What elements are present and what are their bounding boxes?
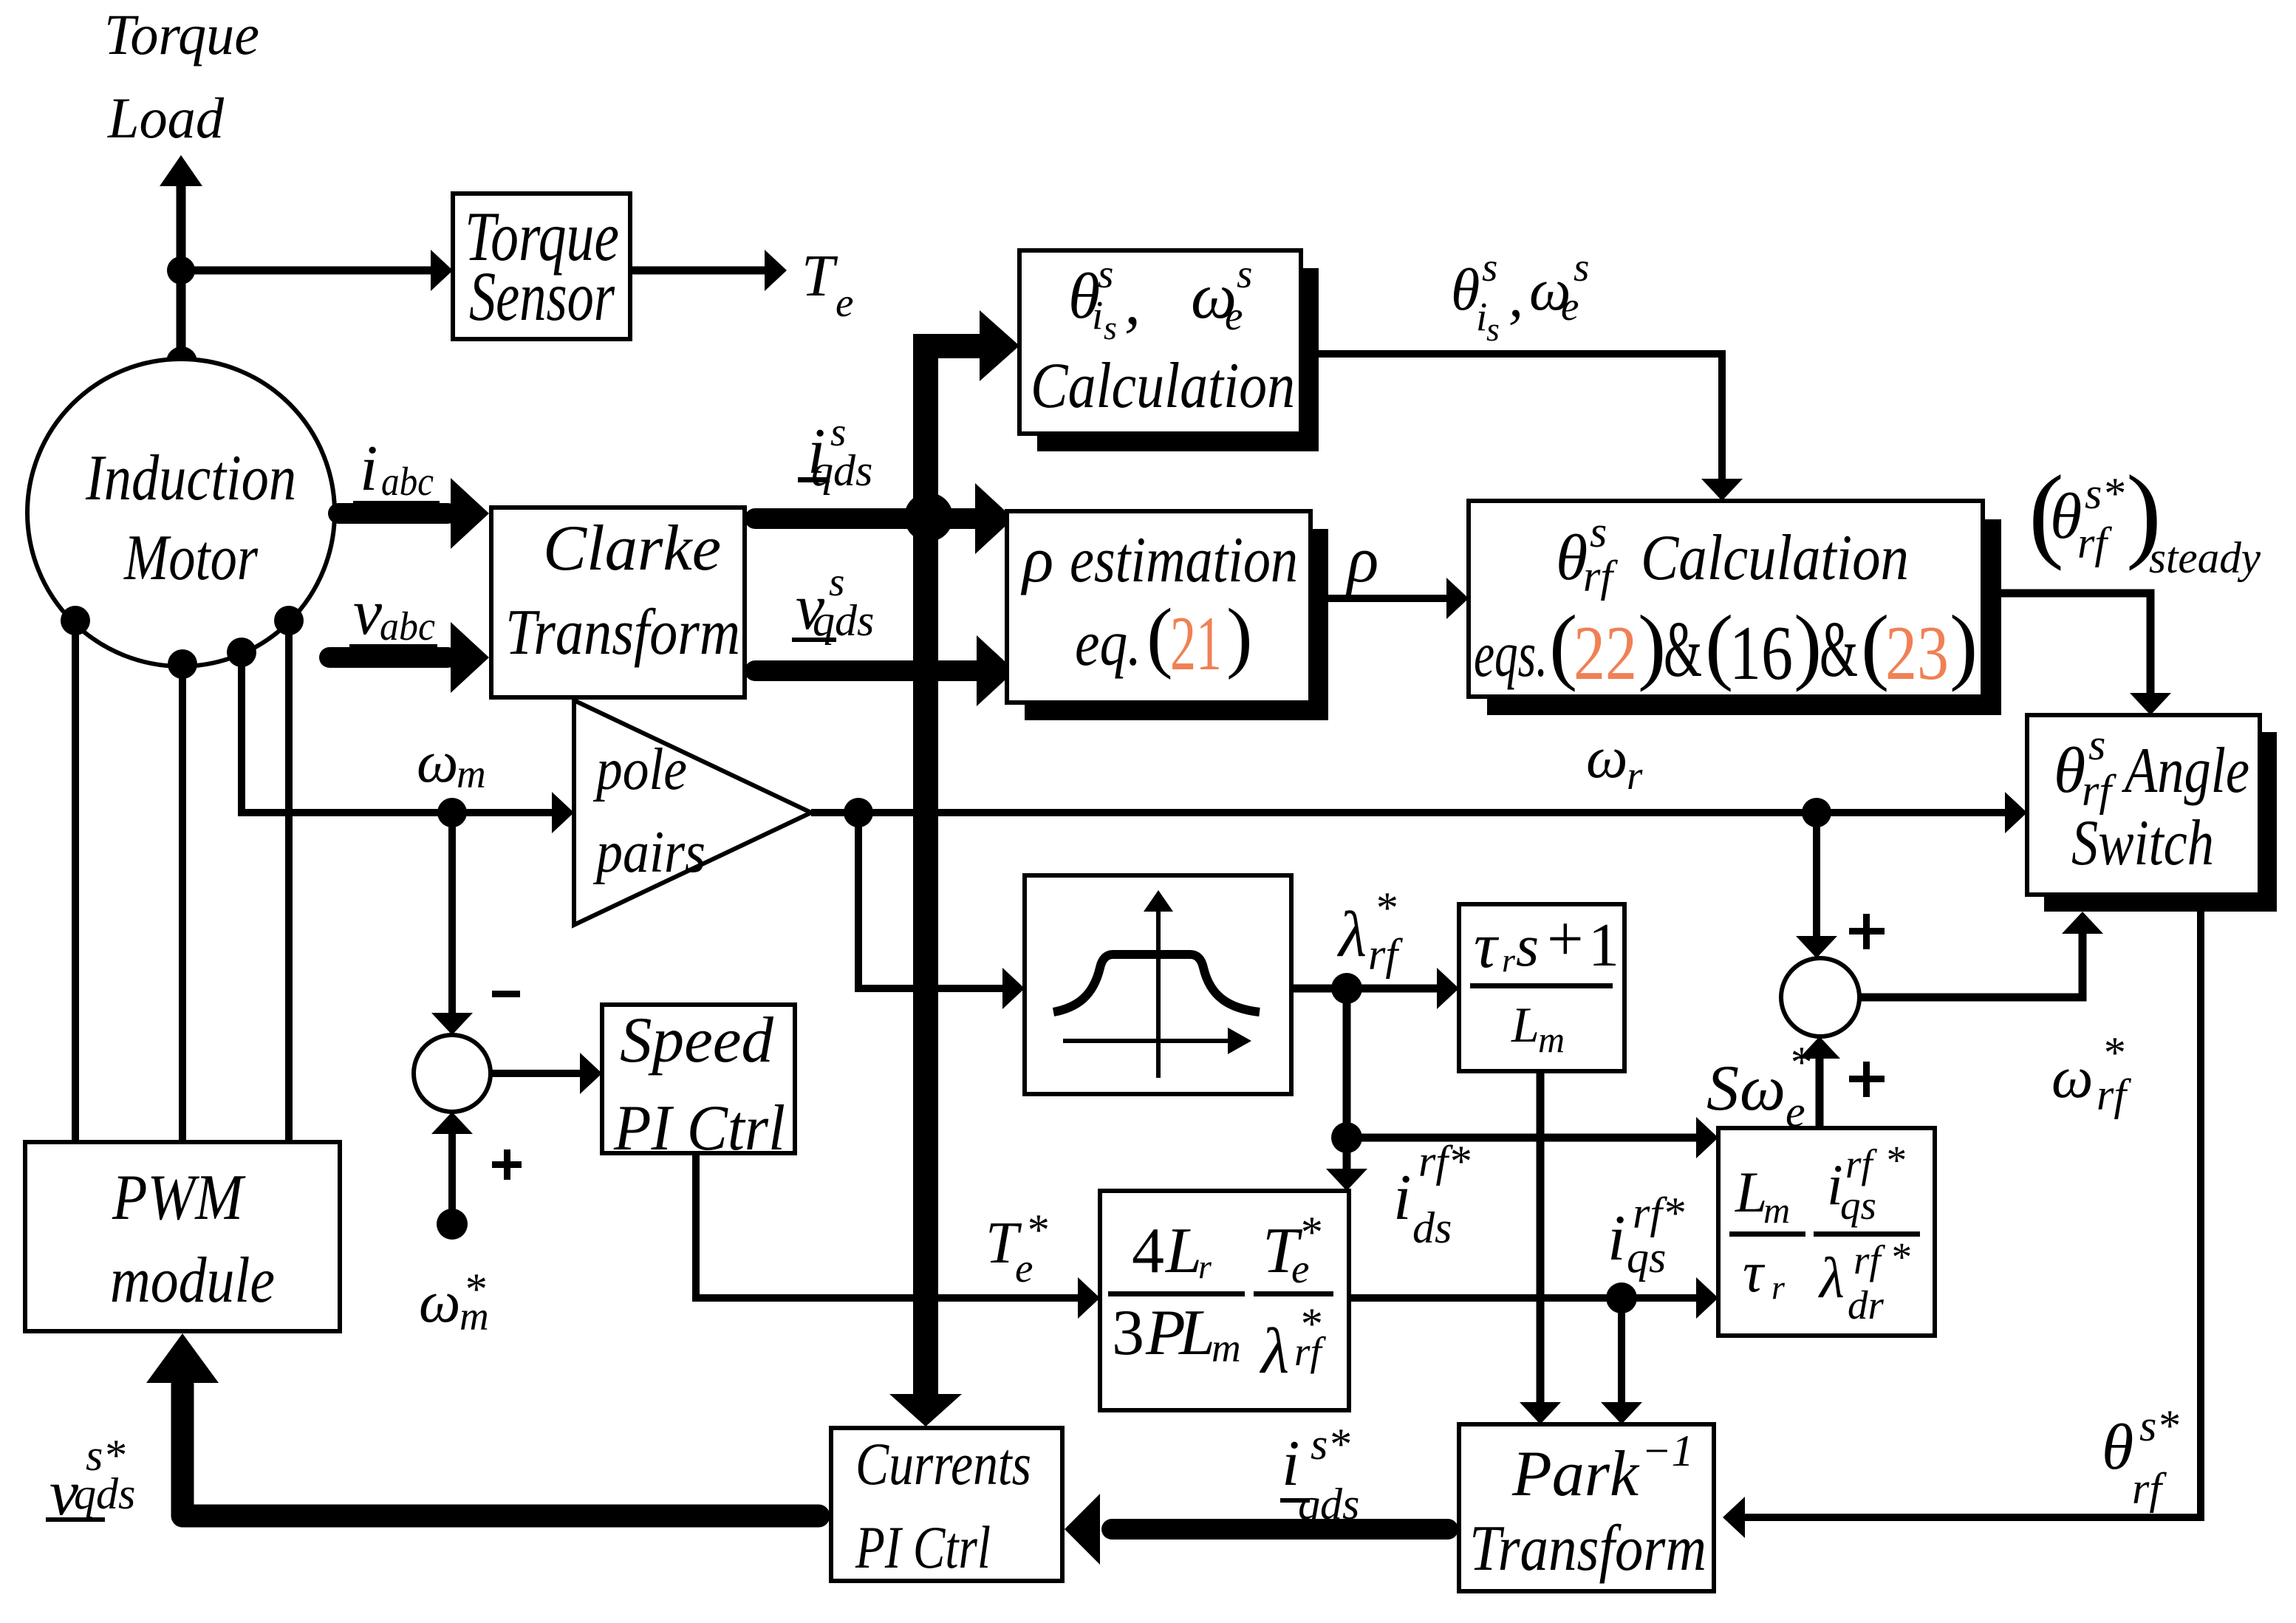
node v_abc label <box>349 577 437 649</box>
svg-text:3: 3 <box>1112 1297 1144 1369</box>
svg-text:ω: ω <box>419 1270 460 1335</box>
node i_qs dot <box>1606 1282 1637 1313</box>
svg-text:m: m <box>1763 1189 1790 1231</box>
svg-text:m: m <box>457 751 486 796</box>
node v_qds^s* label <box>46 1431 135 1529</box>
svg-text:,: , <box>1124 267 1141 338</box>
svg-text:21: 21 <box>1170 600 1222 686</box>
block speed summing junction <box>414 1035 491 1112</box>
node theta_rf_steady label <box>2029 454 2261 582</box>
wire i_abc thick arrow <box>338 478 489 549</box>
svg-text:s: s <box>1237 251 1252 296</box>
svg-text:i: i <box>1393 1162 1411 1234</box>
node omega_m_ref label <box>419 1265 489 1339</box>
svg-text:Load: Load <box>107 86 225 150</box>
wire junction to torque sensor <box>181 250 453 291</box>
wire motor phase D to PWM <box>285 621 293 1142</box>
svg-text:abc: abc <box>380 604 435 649</box>
svg-text:i: i <box>1092 293 1103 338</box>
node lambda dot 2 <box>1331 1122 1362 1153</box>
svg-text:Torque: Torque <box>104 2 259 66</box>
wire thick measurement bus (vertical) <box>889 310 1019 1426</box>
svg-text:ρ: ρ <box>1345 525 1378 596</box>
node omega_r label <box>1586 725 1643 798</box>
wire v_qds^s thick line into rho box <box>755 635 1015 706</box>
svg-text:L: L <box>1511 997 1540 1053</box>
block Park inverse transform <box>1459 1424 1714 1591</box>
node Torque Load label <box>104 2 259 150</box>
svg-text:Motor: Motor <box>123 522 258 594</box>
wire lambda into 4Lr box top <box>1326 1138 1367 1191</box>
node i_abc label <box>353 433 440 505</box>
svg-text:θ: θ <box>2102 1412 2133 1483</box>
node motor terminal A <box>61 606 90 635</box>
svg-text:dr: dr <box>1848 1282 1885 1328</box>
svg-text:16: 16 <box>1729 609 1793 696</box>
svg-text:Calculation: Calculation <box>1031 350 1295 422</box>
block field weakening profile <box>1025 875 1291 1094</box>
wire omega_r into sum2 top <box>1796 813 1837 958</box>
svg-text:&: & <box>1664 606 1702 694</box>
svg-text:m: m <box>1538 1019 1565 1060</box>
svg-text:s: s <box>2088 720 2105 769</box>
svg-text:Park: Park <box>1511 1438 1640 1510</box>
block Clarke Transform <box>491 508 745 697</box>
svg-text:Sensor: Sensor <box>469 257 615 335</box>
svg-text:L: L <box>1178 1297 1215 1369</box>
node omega_r dot at angle switch branch <box>1802 798 1831 827</box>
svg-text:−1: −1 <box>1641 1426 1694 1475</box>
svg-text:abc: abc <box>381 459 434 504</box>
svg-text:module: module <box>110 1245 275 1316</box>
svg-text:+: + <box>1547 903 1584 975</box>
svg-text:rf*: rf* <box>1633 1189 1684 1237</box>
svg-text:eq.: eq. <box>1075 608 1141 680</box>
node Te label <box>802 244 853 325</box>
svg-text:Induction: Induction <box>85 443 296 514</box>
svg-text:estimation: estimation <box>1070 525 1298 596</box>
svg-text:,: , <box>1509 264 1523 329</box>
wire pole pairs output omega_r line to angle switch <box>811 792 2027 833</box>
node plus sign sum2 top <box>1849 914 1885 949</box>
wire lambda branch down <box>1343 988 1351 1138</box>
svg-text:s: s <box>1486 310 1500 348</box>
svg-text:Currents: Currents <box>855 1430 1031 1497</box>
wire theta_rf steady output to angle switch <box>1983 593 2171 715</box>
svg-text:Angle: Angle <box>2122 735 2249 807</box>
node lambda_rf* label <box>1336 884 1403 979</box>
svg-text:PI Ctrl: PI Ctrl <box>855 1514 991 1581</box>
svg-text:θ: θ <box>2054 735 2085 807</box>
svg-text:): ) <box>1794 598 1822 692</box>
svg-text:): ) <box>1638 598 1666 692</box>
svg-text:&: & <box>1820 606 1858 694</box>
svg-text:S: S <box>1706 1053 1739 1124</box>
svg-text:eqs.: eqs. <box>1474 619 1548 691</box>
svg-text:ω: ω <box>2051 1045 2093 1110</box>
svg-text:qds: qds <box>74 1469 135 1518</box>
node motor terminal C <box>227 638 256 667</box>
svg-text:T: T <box>802 244 838 309</box>
svg-text:τ: τ <box>1743 1240 1766 1304</box>
svg-text:*: * <box>1890 1234 1910 1279</box>
node omega_m label <box>417 730 486 796</box>
svg-text:*: * <box>1788 1038 1811 1087</box>
svg-text:Speed: Speed <box>620 1005 774 1076</box>
wire torque-load arrow (up from shaft junction) <box>160 155 202 273</box>
svg-text:Clarke: Clarke <box>543 513 721 584</box>
wire motor phase B to PWM <box>179 664 186 1142</box>
svg-text:r: r <box>1771 1268 1786 1306</box>
svg-text:s*: s* <box>2085 469 2124 518</box>
node theta_rf^s* label <box>2102 1401 2179 1513</box>
svg-text:L: L <box>1164 1215 1202 1287</box>
node omega_m junction dot <box>437 798 467 827</box>
svg-text:s*: s* <box>2139 1401 2179 1450</box>
svg-text:ds: ds <box>1412 1203 1452 1252</box>
wire speed PI output Te* to 4Lr block <box>696 1153 1100 1319</box>
svg-text:m: m <box>459 1294 489 1339</box>
svg-text:steady: steady <box>2149 533 2261 582</box>
svg-text:r: r <box>1502 941 1516 979</box>
svg-text:λ: λ <box>1336 899 1367 971</box>
svg-text:λ: λ <box>1818 1246 1845 1310</box>
node v_qds^s label <box>792 559 874 645</box>
node S omega_e* label <box>1706 1038 1811 1136</box>
wire i_qds^s thick line into rho box <box>755 483 1014 554</box>
wire box1 output to theta_rf calc <box>1301 354 1743 501</box>
svg-text:pole: pole <box>593 737 687 802</box>
svg-text:v: v <box>353 577 383 649</box>
svg-text:e: e <box>1291 1246 1309 1291</box>
node motor terminal B <box>168 649 197 679</box>
svg-text:λ: λ <box>1259 1316 1289 1387</box>
node plus sign sum2 bottom <box>1849 1062 1885 1097</box>
block PWM module <box>25 1142 340 1331</box>
block Speed PI Ctrl <box>602 1005 795 1164</box>
svg-text:PWM: PWM <box>112 1162 246 1234</box>
svg-text:s*: s* <box>1311 1420 1350 1469</box>
svg-text:i: i <box>1282 1428 1299 1500</box>
svg-text:4: 4 <box>1132 1215 1164 1287</box>
svg-text:Transform: Transform <box>505 597 740 669</box>
block theta_rf calculation (box3) <box>1469 501 2001 715</box>
svg-text:s: s <box>1098 251 1113 296</box>
svg-text:ω: ω <box>1740 1053 1786 1124</box>
node i_ds^rf* label <box>1393 1137 1470 1252</box>
svg-text:Transform: Transform <box>1469 1513 1706 1585</box>
svg-text:*: * <box>1885 1138 1905 1183</box>
svg-text:(: ( <box>1147 593 1173 680</box>
svg-text:e: e <box>836 280 853 325</box>
node plus sign at sum1 <box>492 1149 522 1180</box>
svg-text:qds: qds <box>811 446 872 495</box>
wire motor phase A to PWM <box>72 621 79 1142</box>
wire omega_m from motor to pole pairs <box>242 652 574 833</box>
block 4Lr/3PLm Te/lambda <box>1100 1191 1349 1410</box>
node i_qds^s* label <box>1280 1420 1359 1528</box>
block theta/omega calculation (box1) <box>1019 250 1319 451</box>
wire field weakening input from pole pairs dot <box>858 813 1025 1009</box>
node Te* label <box>985 1206 1048 1291</box>
svg-text:22: 22 <box>1574 609 1637 696</box>
node motor terminal D <box>274 606 304 635</box>
svg-text:i: i <box>1607 1203 1625 1274</box>
svg-text:rf*: rf* <box>1418 1137 1470 1186</box>
svg-text:τ: τ <box>1474 910 1500 982</box>
block tau_r s+1 over Lm <box>1459 903 1624 1071</box>
svg-text:23: 23 <box>1885 609 1949 696</box>
wire rho output <box>1328 578 1469 619</box>
svg-text:e: e <box>1225 293 1243 338</box>
block slip summing junction <box>1781 958 1859 1036</box>
wire lambda to Lm/tau_r box <box>1347 1117 1718 1158</box>
node minus sign at sum1 <box>492 991 520 997</box>
svg-text:Calculation: Calculation <box>1641 522 1909 594</box>
node shaft junction <box>167 256 195 284</box>
svg-text:s: s <box>1482 245 1497 290</box>
wire sum2 output omega_rf* to angle switch <box>1859 912 2103 997</box>
svg-text:1: 1 <box>1588 911 1619 980</box>
svg-text:ω: ω <box>417 730 458 795</box>
node bus junction dot <box>904 493 953 541</box>
node omega_rf* label <box>2051 1028 2131 1119</box>
svg-text:*: * <box>1374 884 1396 932</box>
block Lm/tau_r times iqs/lambda_dr <box>1718 1128 1935 1336</box>
block Currents PI Ctrl <box>831 1428 1062 1581</box>
wire torque sensor output Te <box>630 250 787 291</box>
wire i_qs branch down to Park <box>1601 1298 1642 1424</box>
wire theta_rf* feedback from angle switch to Park <box>1723 895 2201 1538</box>
wire junction down to motor <box>177 270 186 362</box>
wire omega_m_ref into sum1 <box>431 1112 473 1240</box>
wire S*omega_e output up to sum2 <box>1799 1036 1840 1128</box>
svg-text:qs: qs <box>1840 1183 1876 1228</box>
node pole pairs output dot <box>844 798 873 827</box>
block pole pairs (triangle) <box>574 700 811 925</box>
node lambda dot 1 <box>1331 973 1362 1004</box>
wire v_qds^s* thick feedback to PWM <box>146 1333 819 1516</box>
node motor top terminal <box>166 346 197 377</box>
svg-text:pairs: pairs <box>593 820 705 885</box>
svg-text:r: r <box>1198 1248 1212 1285</box>
node theta_is omega_e label <box>1451 245 1589 348</box>
svg-text:qds: qds <box>1298 1480 1359 1528</box>
svg-text:): ) <box>1950 598 1978 692</box>
block Induction Motor <box>27 359 335 666</box>
wire v_abc thick arrow <box>329 622 489 693</box>
block Torque Sensor <box>453 194 630 339</box>
svg-text:): ) <box>1226 593 1253 680</box>
svg-text:e: e <box>1015 1246 1033 1291</box>
svg-text:L: L <box>1735 1160 1767 1224</box>
wire i_qs^rf* output to Lm/tau_r <box>1349 1277 1718 1319</box>
wire Park thick output to currents PI <box>1065 1494 1448 1565</box>
svg-text:i: i <box>360 433 377 505</box>
svg-text:r: r <box>1627 753 1643 798</box>
node i_qds^s label <box>798 409 872 495</box>
svg-text:i: i <box>1476 294 1487 339</box>
svg-text:e: e <box>1561 284 1579 329</box>
block angle switch <box>2027 715 2277 912</box>
svg-text:ρ: ρ <box>1020 525 1053 596</box>
svg-text:qs: qs <box>1627 1233 1666 1282</box>
svg-text:s: s <box>1590 508 1607 556</box>
wire lambda_rf* output <box>1291 968 1459 1009</box>
wire tau_r box output down to Park <box>1520 1071 1561 1424</box>
block rho estimation (box2) <box>1007 511 1328 720</box>
wire sum1 to speed PI <box>491 1053 602 1094</box>
svg-text:e: e <box>1786 1087 1805 1136</box>
svg-text:m: m <box>1212 1325 1241 1370</box>
svg-text:Switch: Switch <box>2071 807 2214 879</box>
svg-text:s: s <box>1574 245 1589 290</box>
svg-text:s: s <box>1104 309 1117 346</box>
wire omega_m to speed summing junction <box>431 813 473 1035</box>
svg-text:s: s <box>1516 914 1539 979</box>
svg-text:ω: ω <box>1586 725 1627 790</box>
node i_qs^rf* label <box>1607 1189 1684 1282</box>
